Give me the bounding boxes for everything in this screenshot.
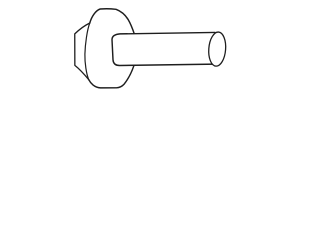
head face left inner edge bbox=[85, 23, 90, 80]
shank end cap ellipse bbox=[207, 31, 226, 66]
shank cylinder silhouette bbox=[112, 32, 216, 65]
head side facet band bbox=[75, 23, 90, 80]
bolt head face outline bbox=[89, 9, 135, 88]
bolt/stud part line drawing bbox=[0, 0, 300, 100]
